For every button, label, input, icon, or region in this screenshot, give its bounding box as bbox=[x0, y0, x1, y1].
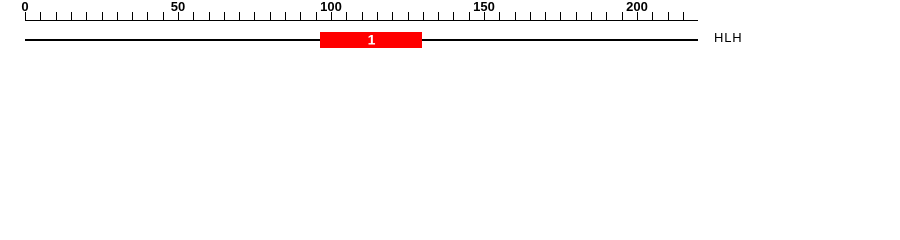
svg-text:0: 0 bbox=[21, 0, 28, 14]
ruler ticks bbox=[26, 12, 684, 21]
svg-text:50: 50 bbox=[171, 0, 185, 14]
motif box 1 bbox=[320, 32, 422, 48]
svg-text:150: 150 bbox=[473, 0, 495, 14]
ruler labels bbox=[21, 0, 647, 14]
svg-text:HLH: HLH bbox=[714, 30, 742, 45]
sequence line bbox=[25, 39, 698, 41]
svg-text:200: 200 bbox=[626, 0, 648, 14]
svg-text:1: 1 bbox=[368, 31, 376, 47]
ruler line bbox=[25, 20, 698, 22]
svg-text:100: 100 bbox=[320, 0, 342, 14]
